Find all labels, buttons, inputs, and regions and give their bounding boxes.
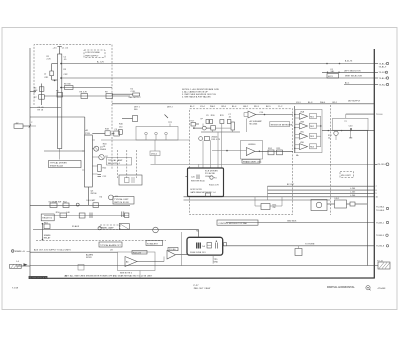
svg-text:TYPICAL DRIVER: TYPICAL DRIVER — [50, 162, 67, 165]
wire — [322, 71, 374, 73]
svg-text:U3: U3 — [110, 250, 113, 252]
resistors right of U2 — [268, 150, 274, 155]
svg-text:DS40 FUSE C61: DS40 FUSE C61 — [190, 252, 206, 254]
svg-text:150: 150 — [119, 126, 122, 128]
svg-text:VEL LIMIT: VEL LIMIT — [341, 175, 352, 177]
svg-text:R9 1K: R9 1K — [38, 110, 44, 112]
svg-text:T2: T2 — [344, 121, 346, 123]
svg-text:R17: R17 — [191, 121, 195, 123]
svg-text:TO J4: TO J4 — [377, 260, 383, 262]
svg-text:SONALERT: SONALERT — [147, 242, 159, 245]
frame bottom border — [30, 277, 375, 279]
row 3 parts — [44, 224, 50, 229]
tick labels under wire — [190, 102, 337, 108]
svg-text:R44 22K: R44 22K — [133, 252, 142, 254]
svg-text:SPKR: SPKR — [86, 257, 92, 259]
svg-text:DS2-6: DS2-6 — [151, 154, 157, 156]
transistor Q1 — [94, 146, 99, 151]
capacitor inside — [196, 175, 198, 180]
capacitor C12 — [98, 174, 102, 176]
svg-text:SPARE: SPARE — [44, 234, 51, 237]
frame left border — [29, 48, 31, 279]
wire bus B y78 — [61, 77, 374, 79]
left connector hatched — [10, 264, 22, 268]
dashed vertical right-center — [330, 105, 332, 215]
svg-text:AUX OUT 4.5V SUPPLY TO ALL UNI: AUX OUT 4.5V SUPPLY TO ALL UNITS — [34, 249, 71, 252]
svg-text:GN-2: GN-2 — [243, 106, 248, 108]
svg-text:A6: A6 — [126, 261, 129, 264]
control module label strip — [217, 220, 258, 225]
svg-text:YL-2: YL-2 — [278, 106, 282, 108]
svg-text:R64: R64 — [310, 147, 314, 149]
svg-text:WH-4: WH-4 — [320, 102, 325, 104]
svg-text:SWITCH S2-S8: SWITCH S2-S8 — [114, 202, 128, 204]
small box feed — [133, 116, 138, 122]
svg-text:P4: P4 — [214, 178, 217, 180]
wire — [344, 84, 374, 86]
svg-text:PWR SUPPLY: PWR SUPPLY — [85, 55, 99, 57]
svg-text:TYPICAL LAMP: TYPICAL LAMP — [108, 159, 123, 162]
processor dark box — [188, 168, 224, 197]
row 2 components — [44, 214, 129, 216]
long return wire y265.5 — [16, 265, 30, 267]
svg-text:S1 GEAR SW: S1 GEAR SW — [49, 200, 62, 203]
svg-text:TX-GN-4: TX-GN-4 — [376, 206, 384, 208]
svg-text:K4: K4 — [100, 197, 103, 199]
lamp block — [119, 175, 142, 185]
svg-text:R31: R31 — [220, 115, 224, 117]
label box DS group — [150, 151, 160, 156]
diode chain left of bus — [52, 63, 58, 65]
big light box lamp group — [136, 127, 178, 141]
wire — [112, 93, 133, 95]
svg-text:B+ 12V: B+ 12V — [97, 62, 104, 64]
svg-text:OR-6: OR-6 — [221, 106, 226, 108]
svg-text:T-158: T-158 — [12, 288, 19, 290]
main vertical bus bar B1 — [58, 54, 62, 149]
wire — [44, 150, 85, 152]
svg-text:L2: L2 — [44, 73, 46, 75]
left connector SPARE +B — [11, 250, 14, 253]
label box typical limit sw — [113, 197, 134, 205]
resistor R21 vertical — [231, 122, 235, 130]
gate G2 — [206, 193, 211, 196]
right border bus — [373, 49, 375, 279]
verticals into processor box — [202, 140, 204, 168]
svg-text:U5B: U5B — [300, 121, 305, 123]
output wires right of processor — [268, 185, 375, 187]
lamps in group — [145, 132, 148, 135]
svg-text:MC1306: MC1306 — [250, 123, 258, 125]
wire — [30, 107, 61, 109]
op-amp U1 — [248, 111, 256, 118]
svg-text:47044F: 47044F — [378, 288, 387, 290]
dashed enclosure top-left — [34, 45, 112, 171]
gnd bus wire y223 — [226, 222, 374, 224]
op-amp U3 group — [118, 252, 156, 271]
snubber cluster below wires — [254, 197, 256, 206]
svg-text:PARTIAL HORIZONTAL: PARTIAL HORIZONTAL — [327, 285, 355, 289]
transistor Q4 — [202, 126, 206, 130]
svg-text:WH-1: WH-1 — [210, 106, 215, 108]
components upper right of A1 — [105, 131, 110, 136]
svg-text:R18: R18 — [105, 129, 109, 131]
svg-text:TX-OR-2: TX-OR-2 — [378, 164, 386, 166]
bus bar stub — [59, 149, 61, 160]
svg-text:RESISTOR NETWORK: RESISTOR NETWORK — [271, 124, 293, 126]
svg-text:GATE BIAS NETWORK 1-4: GATE BIAS NETWORK 1-4 — [190, 191, 215, 194]
svg-text:R61: R61 — [310, 116, 314, 118]
svg-text:CR1: CR1 — [44, 77, 48, 79]
transistor Q2 — [99, 155, 104, 160]
svg-text:TX-BK-1: TX-BK-1 — [376, 222, 384, 224]
connector TX-BL-5 — [374, 77, 378, 79]
svg-text:PCB: PCB — [86, 133, 91, 135]
svg-text:C9: C9 — [206, 115, 209, 117]
resistor R6 — [65, 86, 74, 90]
connector wedge on frame — [30, 91, 36, 93]
diagonal tick — [165, 115, 169, 119]
svg-text:C3: C3 — [115, 196, 118, 198]
cap drop — [350, 131, 352, 138]
op-amp U2 — [246, 148, 255, 156]
cluster resistors center — [206, 120, 209, 124]
svg-text:TX-BK-3: TX-BK-3 — [376, 235, 384, 237]
label box NOTE dashed — [84, 50, 105, 58]
PCB strip A1 — [85, 135, 93, 187]
svg-text:TX-W-2: TX-W-2 — [379, 84, 386, 86]
resistor R13 — [211, 126, 216, 131]
svg-text:P/O A2 BD: P/O A2 BD — [205, 172, 216, 175]
svg-text:7: 7 — [376, 186, 377, 188]
resistor R9 — [106, 94, 113, 99]
svg-text:2W: 2W — [273, 207, 276, 209]
svg-text:R25: R25 — [277, 148, 281, 150]
svg-text:DET 2: DET 2 — [167, 106, 173, 108]
wire — [256, 114, 293, 116]
svg-text:C1 .05: C1 .05 — [62, 48, 68, 50]
indicator block — [196, 243, 201, 249]
speaker assembly box — [333, 118, 369, 130]
svg-text:PANEL LAMP: PANEL LAMP — [101, 227, 114, 230]
svg-text:VERT SELECTOR: VERT SELECTOR — [345, 76, 362, 78]
svg-text:10: 10 — [328, 138, 330, 140]
svg-text:R30: R30 — [211, 115, 215, 117]
test point below M1 — [212, 255, 214, 264]
wire — [255, 150, 293, 152]
resistor R8 — [81, 94, 88, 99]
svg-text:DN LIMIT: DN LIMIT — [87, 200, 97, 202]
wire long y103.8 — [112, 103, 374, 105]
wire out of M1 — [223, 245, 375, 247]
transistor Q5 low — [199, 137, 203, 141]
svg-text:A1: A1 — [86, 129, 89, 132]
svg-text:R3: R3 — [64, 69, 67, 71]
svg-text:PROCESSOR A7: PROCESSOR A7 — [29, 277, 47, 280]
svg-text:SEE NOTE 4: SEE NOTE 4 — [108, 163, 120, 165]
resistor on return wire — [78, 265, 84, 271]
svg-text:9: 9 — [376, 193, 377, 195]
svg-text:R62: R62 — [310, 126, 314, 128]
svg-text:R7: R7 — [34, 97, 37, 99]
svg-text:2.2K: 2.2K — [47, 59, 52, 61]
svg-text:KEY: ALL SWITCHES SHOWN WITH P: KEY: ALL SWITCHES SHOWN WITH POWER OFF A… — [65, 274, 153, 277]
wires cluster — [194, 127, 203, 129]
svg-text:B2 OUT: B2 OUT — [287, 184, 295, 186]
svg-text:Q3: Q3 — [91, 190, 94, 192]
wire A1 bottom — [87, 187, 89, 205]
svg-text:STAGE A1-A4: STAGE A1-A4 — [50, 165, 63, 168]
resistor R22 — [98, 165, 102, 172]
transistor Q7 — [334, 131, 338, 135]
op-amp U4 — [167, 251, 176, 260]
svg-text:GND BUS: GND BUS — [287, 221, 297, 223]
capacitor cell — [215, 243, 217, 249]
svg-text:C12: C12 — [103, 176, 107, 178]
svg-text:R33 4.7K: R33 4.7K — [211, 139, 220, 141]
label box typical driver — [49, 161, 82, 168]
svg-text:TX-BL-9: TX-BL-9 — [379, 67, 387, 69]
svg-text:C9: C9 — [114, 129, 117, 131]
label box alarm — [99, 242, 122, 247]
svg-text:10: 10 — [376, 197, 378, 199]
svg-text:TX-V-6: TX-V-6 — [376, 114, 382, 116]
svg-text:PHASE SHIFT OSC: PHASE SHIFT OSC — [243, 160, 262, 163]
svg-text:R102 4.7K: R102 4.7K — [209, 184, 219, 186]
spare relay drop — [42, 223, 44, 225]
svg-text:R98 R99 R100: R98 R99 R100 — [191, 181, 205, 183]
wire y96 — [44, 95, 130, 97]
svg-text:TYPICAL LIMIT: TYPICAL LIMIT — [114, 198, 129, 201]
svg-text:ACC: ACC — [345, 82, 350, 85]
switch row y205.3 — [30, 204, 130, 206]
svg-text:2N404: 2N404 — [100, 149, 106, 151]
connector TX-W-2 — [374, 84, 378, 86]
stub top — [198, 164, 200, 168]
svg-text:TX-RD-8: TX-RD-8 — [376, 246, 384, 248]
wire — [30, 116, 85, 118]
resistor R5 — [57, 93, 63, 98]
svg-text:R22: R22 — [103, 168, 107, 170]
label box U2 — [242, 159, 260, 163]
relay box label — [270, 122, 290, 127]
long wire y164 — [151, 163, 375, 165]
svg-text:DR-2: DR-2 — [335, 198, 340, 200]
svg-text:2. ALL CAPACITORS IN UF: 2. ALL CAPACITORS IN UF — [182, 90, 208, 93]
meter M2 wire — [33, 229, 199, 231]
connector TX-GY-3 — [374, 71, 378, 73]
inductor L2 — [50, 71, 54, 76]
svg-text:C5 .05: C5 .05 — [38, 107, 44, 109]
pin stubs A1 — [92, 139, 95, 141]
resistor R4 column — [40, 84, 42, 106]
svg-text:28V SUPPLY: 28V SUPPLY — [348, 100, 361, 102]
svg-text:BL-8: BL-8 — [308, 102, 312, 104]
comparator U5B — [300, 123, 308, 129]
label box VEL LIMIT — [340, 172, 354, 178]
wire y130.6 — [322, 130, 374, 132]
svg-text:GY-4: GY-4 — [200, 106, 205, 108]
svg-text:TX-GN-6: TX-GN-6 — [376, 210, 384, 212]
aux solid wire y252.2 — [30, 251, 118, 253]
svg-text:RELAY K2: RELAY K2 — [42, 217, 52, 220]
svg-text:R50: R50 — [56, 212, 60, 214]
svg-text:LOW VOLTAGE: LOW VOLTAGE — [85, 51, 100, 54]
svg-text:2N404: 2N404 — [211, 137, 217, 139]
svg-text:P/O A5: P/O A5 — [169, 248, 176, 251]
center dashed module box — [190, 109, 293, 215]
svg-text:CONTROL MODULE TOP PAD: CONTROL MODULE TOP PAD — [219, 222, 248, 225]
svg-text:.01: .01 — [228, 117, 231, 119]
driver cluster bottom right — [311, 200, 327, 211]
svg-text:SCR2 SCR3: SCR2 SCR3 — [190, 189, 202, 191]
svg-text:S5 AUX: S5 AUX — [72, 225, 80, 228]
black title tag bottom-left — [29, 276, 48, 279]
svg-text:R6 330: R6 330 — [64, 84, 71, 86]
svg-text:CR40: CR40 — [205, 176, 210, 178]
small parts left of module — [191, 123, 196, 127]
svg-text:TYPICAL ALARM CKT: TYPICAL ALARM CKT — [100, 244, 121, 247]
svg-text:TO HORN: TO HORN — [305, 244, 315, 246]
comparator U5A — [300, 113, 308, 119]
svg-text:BL-4: BL-4 — [232, 106, 236, 108]
meter cell — [207, 243, 212, 249]
svg-text:U5D: U5D — [300, 142, 305, 144]
stub left — [185, 176, 187, 178]
monitor box M1 — [187, 237, 223, 255]
svg-text:PAY OUT VIEW: PAY OUT VIEW — [194, 287, 211, 290]
wire — [61, 87, 112, 89]
svg-text:J-4: J-4 — [16, 261, 19, 263]
svg-text:C14: C14 — [260, 112, 264, 114]
svg-text:TX-BL-7: TX-BL-7 — [379, 63, 387, 65]
svg-text:SPARE +B: SPARE +B — [15, 250, 26, 253]
svg-text:R40: R40 — [119, 124, 123, 126]
svg-text:.05: .05 — [64, 59, 67, 61]
svg-text:BL-2: BL-2 — [190, 106, 194, 108]
vertical feed right — [366, 130, 368, 265]
svg-text:R63: R63 — [310, 136, 314, 138]
wire cluster bottom — [201, 131, 240, 133]
label box typical lamp — [107, 158, 132, 166]
svg-text:SEL: SEL — [134, 109, 138, 111]
svg-text:C50: C50 — [349, 126, 353, 128]
svg-text:R5: R5 — [56, 91, 59, 93]
svg-text:U5A: U5A — [300, 111, 305, 114]
comparator U5D — [300, 144, 308, 150]
svg-text:R40: R40 — [103, 144, 107, 146]
svg-text:4X21: 4X21 — [328, 76, 333, 78]
svg-text:R9: R9 — [105, 92, 108, 94]
feed box P/O A5 — [168, 248, 178, 251]
connector TX-BL-7 — [374, 63, 378, 65]
op-amp U2 input wire — [212, 150, 246, 152]
svg-text:R61: R61 — [44, 222, 48, 224]
svg-text:LEFT SELECTOR: LEFT SELECTOR — [344, 70, 361, 72]
svg-text:R24: R24 — [268, 148, 272, 150]
svg-text:R8 4.7K: R8 4.7K — [80, 92, 88, 94]
svg-text:TX-BL-5: TX-BL-5 — [379, 78, 387, 80]
svg-text:K2: K2 — [131, 89, 134, 91]
aux dashed wire y240.5 — [36, 240, 166, 242]
label box sonalert — [146, 241, 163, 246]
svg-text:C20: C20 — [191, 177, 195, 179]
hatched connector right — [378, 262, 390, 269]
vertical wire left of M1 — [181, 232, 183, 266]
connector TX-OR-2 — [374, 163, 377, 165]
op-amp U2 group box — [241, 141, 263, 160]
wire y114 — [346, 113, 375, 115]
relay label box — [41, 214, 54, 221]
svg-text:LM3900: LM3900 — [248, 144, 255, 146]
svg-text:R52: R52 — [63, 201, 67, 203]
output bus vertical — [320, 116, 322, 146]
svg-text:+4.5: +4.5 — [53, 48, 57, 50]
quad comparator group — [295, 110, 322, 153]
svg-text:BK-5: BK-5 — [266, 106, 271, 108]
svg-text:ALARM: ALARM — [86, 254, 93, 257]
svg-text:U5C: U5C — [300, 132, 305, 134]
svg-text:SEE NOTE 2: SEE NOTE 2 — [129, 97, 141, 99]
part P4 — [210, 176, 213, 179]
svg-text:L-205: L-205 — [350, 191, 355, 193]
svg-text:RD-3: RD-3 — [254, 106, 259, 108]
svg-text:RELAY: RELAY — [44, 236, 51, 239]
svg-text:2N706: 2N706 — [91, 193, 97, 195]
dashed verticals lamp columns — [116, 150, 118, 178]
wire bus A y63.5 — [61, 63, 374, 65]
svg-text:L-206: L-206 — [350, 195, 355, 197]
svg-text:A 41-76: A 41-76 — [345, 60, 352, 63]
svg-text:2: 2 — [31, 122, 32, 124]
svg-text:GY-1: GY-1 — [296, 102, 301, 104]
svg-text:CR2: CR2 — [64, 74, 68, 76]
svg-text:P-27: P-27 — [193, 285, 199, 287]
svg-text:GND: GND — [214, 262, 219, 264]
svg-text:OR-2: OR-2 — [332, 102, 337, 104]
svg-text:NOTES: 1. ALL RESISTORS ARE 1/: NOTES: 1. ALL RESISTORS ARE 1/4W — [182, 88, 219, 91]
comparator U5C — [300, 133, 308, 139]
svg-text:SEE NOTE 5: SEE NOTE 5 — [120, 272, 132, 274]
svg-text:8: 8 — [376, 190, 377, 192]
svg-text:4. SEE TABLE A FOR VALUES: 4. SEE TABLE A FOR VALUES — [182, 96, 211, 99]
supply +4.5V tick — [59, 47, 61, 55]
svg-text:10K: 10K — [34, 90, 38, 92]
svg-text:L-204: L-204 — [350, 188, 355, 190]
wire — [101, 139, 190, 141]
